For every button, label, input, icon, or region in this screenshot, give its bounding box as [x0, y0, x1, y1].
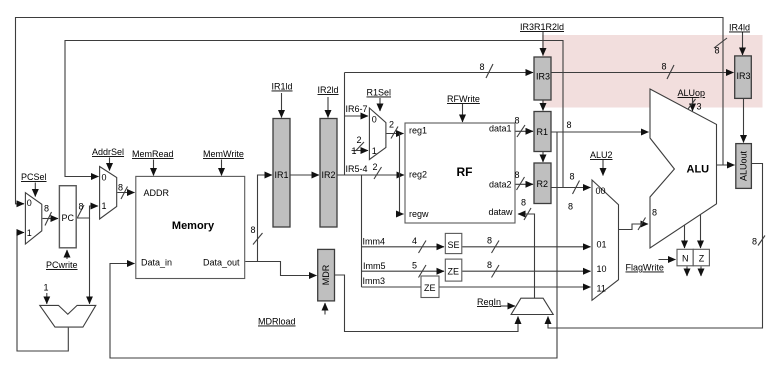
svg-text:8: 8	[567, 120, 572, 130]
mux AddrSel	[100, 167, 117, 220]
wire: ALU output feedback to PCSel input 0	[16, 18, 724, 204]
svg-text:PCwrite: PCwrite	[46, 260, 78, 270]
wire: RegIn mux output up to RF dataw	[518, 214, 535, 299]
mux R1Sel	[369, 108, 386, 160]
svg-text:IR3R1R2ld: IR3R1R2ld	[520, 22, 564, 32]
svg-text:Data_in: Data_in	[141, 258, 172, 268]
wire: RF data1 to R1	[516, 130, 534, 132]
wire: MDR output around to RegIn mux left input	[335, 275, 518, 332]
bus slash on R1Sel output	[391, 127, 398, 139]
wire: RegIn control into mux	[500, 305, 515, 307]
flag register Z	[693, 249, 709, 265]
svg-text:PCSel: PCSel	[21, 172, 47, 182]
svg-text:4: 4	[412, 236, 417, 246]
bus slash on ALUop arrow	[688, 99, 696, 109]
wire: ALU output to N flag	[684, 225, 686, 248]
wire: IR2 output to RF reg2 (IR5-4)	[338, 174, 405, 176]
svg-text:MDR: MDR	[321, 264, 331, 285]
svg-text:Data_out: Data_out	[203, 258, 240, 268]
svg-text:1: 1	[44, 283, 49, 293]
svg-text:2: 2	[373, 162, 378, 172]
bus slash on Imm4 wire	[419, 241, 427, 254]
svg-text:1: 1	[352, 146, 357, 156]
wire: Imm4 into SE	[362, 246, 445, 248]
svg-text:PC: PC	[62, 213, 75, 223]
wire: IR3 to R1	[542, 101, 544, 111]
svg-text:ZE: ZE	[424, 283, 436, 293]
svg-text:IR6-7: IR6-7	[346, 104, 368, 114]
mux ALU2	[592, 180, 619, 300]
bus slash on dataw wire	[524, 208, 531, 220]
bus slash on R2 output	[573, 181, 580, 195]
svg-text:11: 11	[597, 284, 606, 294]
svg-text:8: 8	[515, 116, 520, 126]
wire: IR2ld control arrow	[327, 97, 329, 118]
bus slash on IR3 input wire	[486, 64, 493, 78]
wire: PC output branch down to adder	[89, 218, 91, 304]
wire: IR2 output branch up toward IR3	[344, 73, 346, 176]
svg-text:5: 5	[412, 261, 417, 271]
svg-text:regw: regw	[409, 209, 429, 219]
bus slash on ZE output	[492, 265, 500, 278]
svg-text:3: 3	[697, 102, 702, 112]
wire: N flag output	[686, 267, 688, 277]
mux PCSel	[25, 193, 41, 244]
bus slash on data2 wire	[517, 177, 525, 190]
svg-text:dataw: dataw	[488, 207, 513, 217]
svg-text:RegIn: RegIn	[477, 297, 501, 307]
wire: PCwrite control into PC	[66, 250, 68, 259]
bus slash on Data_out riser	[253, 233, 263, 245]
svg-text:2: 2	[389, 120, 394, 130]
svg-text:MemRead: MemRead	[132, 149, 174, 159]
wire: R1 to R2	[542, 152, 544, 162]
svg-text:8: 8	[480, 62, 485, 72]
wire: SE output to ALU2 mux input 01	[462, 246, 590, 248]
svg-text:1: 1	[372, 146, 377, 156]
wire: ALU2 control arrow	[602, 160, 604, 176]
bus slash on IR5-4 wire	[374, 167, 382, 179]
svg-text:8: 8	[715, 46, 720, 56]
register IR3	[534, 57, 551, 100]
bus slash on Imm5 wire	[419, 265, 427, 278]
PC register	[59, 186, 76, 248]
wire: Data_out branch up to IR1	[258, 175, 273, 262]
svg-text:IR1ld: IR1ld	[272, 82, 293, 92]
wire: Z flag output	[700, 267, 702, 277]
wire: ALUop control into ALU	[692, 98, 694, 111]
wire: R1Sel control arrow	[379, 98, 381, 111]
register IR1	[273, 119, 290, 228]
svg-text:0: 0	[372, 115, 377, 125]
svg-text:01: 01	[597, 240, 607, 250]
wire: RF data2 to R2	[516, 183, 534, 185]
bus slash on PCSel output	[45, 212, 52, 226]
svg-text:IR2: IR2	[322, 170, 336, 180]
wire: constant 1 into R1Sel mux input 1	[352, 150, 369, 152]
wire: IR6-7 field into R1Sel mux input 0	[345, 115, 369, 117]
wire: R1Sel mux output to RF reg1	[386, 133, 403, 135]
svg-text:SE: SE	[448, 240, 460, 250]
svg-text:reg1: reg1	[409, 126, 427, 136]
wire: Memory Data_out to MDR	[245, 262, 316, 276]
wire: PC output to AddrSel input 1	[77, 206, 98, 218]
wire: AddrSel control arrow	[109, 158, 111, 171]
svg-text:8: 8	[570, 172, 575, 182]
bus slash on ALU2 output	[638, 218, 646, 231]
wire: adder output feedback to PCSel input 1	[17, 233, 68, 352]
svg-text:ALUout: ALUout	[739, 150, 749, 181]
register IR3 (second, IR4 stage)	[735, 56, 752, 99]
svg-text:8: 8	[652, 208, 657, 218]
svg-text:00: 00	[596, 186, 606, 196]
svg-text:R2: R2	[537, 179, 549, 189]
wire: MemRead control into Memory	[153, 160, 155, 176]
wire: R2 output up and across to AddrSel input 0	[65, 41, 563, 188]
mux RegIn	[511, 298, 553, 314]
bus slash on PC output	[78, 205, 85, 218]
svg-text:1: 1	[27, 228, 32, 238]
bus slash on AddrSel output	[121, 187, 128, 200]
svg-text:ALU2: ALU2	[590, 150, 613, 160]
wire: R1 output down and around to Memory Data_in	[110, 132, 557, 358]
svg-text:data1: data1	[489, 124, 512, 134]
wire: PCSel mux output to PC	[43, 218, 59, 220]
bus slash on SE output	[492, 241, 500, 254]
wire: ALU output to Z flag	[700, 215, 702, 248]
wire: MDRload control into MDR	[324, 303, 326, 315]
svg-text:8: 8	[251, 225, 256, 235]
wire: AddrSel mux output to Memory ADDR	[117, 192, 134, 194]
svg-text:IR3: IR3	[536, 72, 550, 82]
wire: second IR3 output down to ALUout	[743, 99, 745, 143]
svg-text:8: 8	[487, 260, 492, 270]
wire: ALU output to ALUout	[717, 164, 735, 166]
svg-text:reg2: reg2	[409, 170, 427, 180]
register file RF	[405, 123, 515, 223]
svg-text:R1: R1	[537, 127, 549, 137]
bus slash on IR3 to IR3 wire	[667, 65, 674, 79]
svg-text:8: 8	[752, 237, 757, 247]
zero extender ZE (Imm5)	[445, 259, 462, 281]
Memory block	[136, 176, 245, 278]
register MDR	[318, 249, 335, 301]
register R2	[534, 163, 551, 204]
wire: ZE output to ALU2 mux input 10	[462, 270, 590, 272]
svg-text:2: 2	[357, 135, 362, 145]
svg-text:0: 0	[102, 173, 107, 183]
wire: R1Sel mux output branch to RF regw	[400, 134, 404, 215]
svg-text:IR2ld: IR2ld	[318, 85, 339, 95]
svg-text:N: N	[682, 254, 689, 264]
svg-text:0: 0	[27, 198, 32, 208]
svg-text:8: 8	[515, 170, 520, 180]
svg-text:Imm3: Imm3	[363, 276, 386, 286]
svg-text:FlagWrite: FlagWrite	[626, 263, 664, 273]
bus slash on ALUout feedback wire	[758, 236, 765, 246]
wire: IR3R1R2ld control arrow	[542, 32, 544, 56]
svg-text:MDRload: MDRload	[258, 317, 296, 327]
wire: bus into IR3	[345, 72, 534, 74]
svg-text:Z: Z	[699, 254, 705, 264]
svg-text:ALU: ALU	[687, 164, 710, 176]
bus slash on top feedback wire	[714, 38, 727, 48]
flag register N	[677, 249, 693, 265]
svg-text:R1Sel: R1Sel	[367, 88, 392, 98]
highlight region (pink band)	[542, 35, 763, 108]
svg-text:IR4ld: IR4ld	[729, 23, 750, 33]
svg-text:8: 8	[118, 183, 123, 193]
svg-text:8: 8	[662, 62, 667, 72]
svg-text:8: 8	[79, 202, 84, 212]
register ALUout	[736, 144, 752, 189]
wire: RFWrite control into RF	[462, 104, 464, 122]
wire: Imm3 through ZE to ALU2 mux input 11	[362, 286, 591, 288]
wire: ALU2 mux output to ALU input B	[619, 224, 648, 230]
ALU	[650, 89, 717, 248]
svg-text:ALUop: ALUop	[678, 88, 706, 98]
svg-text:IR3: IR3	[737, 71, 751, 81]
wire: R1 output to ALU input A	[552, 131, 649, 133]
wire: IR1 output to IR2	[291, 174, 320, 176]
zero extender ZE (Imm3)	[421, 276, 439, 298]
bus slash on R1Sel constant 1	[356, 142, 365, 151]
wire: R2 output to ALU2 mux input 00	[552, 187, 591, 189]
wire: ALUout output around to RegIn mux right input	[548, 164, 763, 329]
svg-text:8: 8	[521, 198, 526, 208]
svg-text:8: 8	[487, 236, 492, 246]
wire: IR4ld control arrow	[742, 32, 744, 55]
svg-text:AddrSel: AddrSel	[92, 147, 124, 157]
svg-text:RFWrite: RFWrite	[447, 94, 480, 104]
svg-text:MemWrite: MemWrite	[203, 149, 244, 159]
wire: FlagWrite control into flags	[659, 259, 676, 261]
svg-text:Imm4: Imm4	[363, 237, 386, 247]
wire: IR2 output branch down immediate bus	[361, 175, 363, 287]
svg-text:Imm5: Imm5	[363, 261, 386, 271]
sign extender SE	[445, 233, 462, 253]
wire: IR1ld control arrow	[281, 93, 283, 118]
svg-text:ADDR: ADDR	[144, 188, 170, 198]
svg-text:1: 1	[102, 201, 107, 211]
svg-text:IR1: IR1	[275, 170, 289, 180]
svg-text:IR5-4: IR5-4	[346, 164, 368, 174]
wire: IR3 output to second IR3	[552, 72, 734, 74]
svg-text:Memory: Memory	[172, 220, 215, 232]
svg-text:data2: data2	[489, 180, 512, 190]
wire: MemWrite control into Memory	[221, 160, 223, 176]
svg-text:10: 10	[597, 264, 607, 274]
svg-text:8: 8	[44, 204, 49, 214]
svg-text:RF: RF	[457, 165, 473, 179]
register IR2	[320, 119, 337, 228]
wire: constant 1 into adder	[46, 293, 48, 304]
adder (PC incrementer)	[40, 305, 96, 327]
wire: Imm5 into ZE	[362, 270, 445, 272]
bus slash on data1 wire	[517, 125, 525, 137]
wire: PCSel control arrow	[34, 183, 36, 197]
svg-text:8: 8	[568, 202, 573, 212]
svg-text:ZE: ZE	[448, 267, 460, 277]
register R1	[534, 112, 551, 152]
